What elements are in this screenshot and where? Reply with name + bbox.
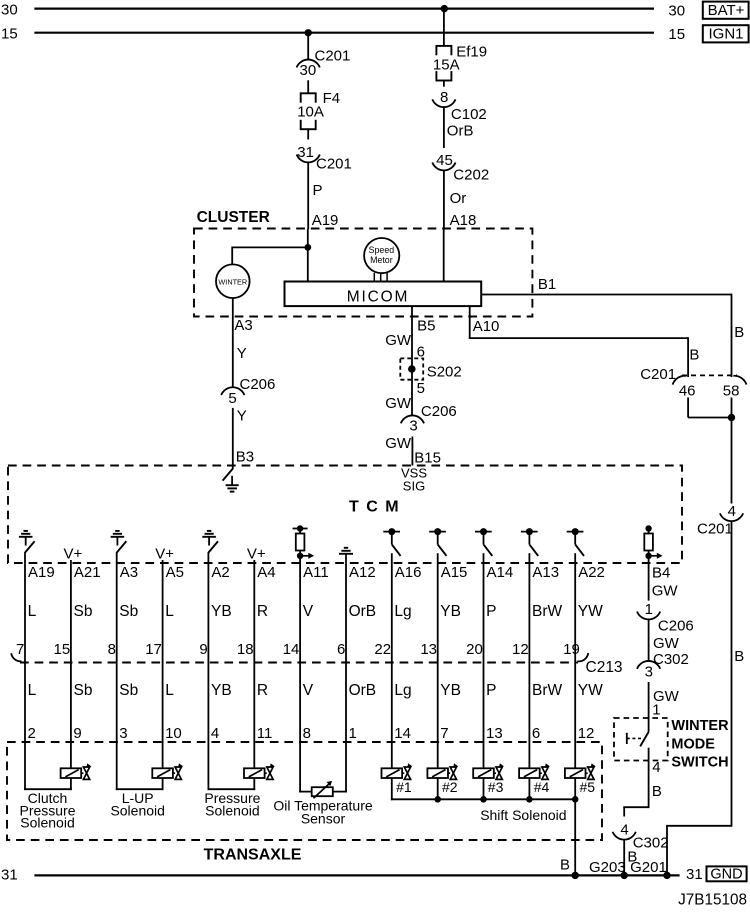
svg-text:P: P	[313, 182, 323, 199]
TCM input switch (A13)	[521, 528, 538, 563]
B3 internal ground	[226, 476, 239, 492]
wire A14 column	[483, 563, 485, 768]
svg-text:A4: A4	[257, 564, 275, 581]
BAT+ terminal box	[703, 2, 749, 19]
junction 46/58 merge	[728, 414, 735, 421]
shift solenoid #1 valve	[402, 763, 412, 779]
svg-text:B15: B15	[414, 449, 441, 466]
svg-text:A3: A3	[234, 317, 252, 334]
Oil Temperature Sensor label	[273, 798, 373, 827]
wire B1 from MICOM	[481, 294, 731, 296]
svg-text:B5: B5	[417, 318, 435, 335]
wire A11 column	[299, 563, 301, 791]
wire to WINTER lamp	[232, 246, 308, 248]
svg-text:YB: YB	[440, 682, 461, 699]
svg-text:#3: #3	[488, 779, 504, 795]
wire A13 column	[528, 563, 530, 768]
svg-text:8: 8	[440, 89, 448, 106]
svg-text:15: 15	[1, 25, 18, 42]
svg-text:A16: A16	[395, 564, 422, 581]
TCM input switch (A14)	[475, 528, 492, 563]
wire A16 column	[391, 563, 393, 768]
svg-text:9: 9	[199, 641, 207, 658]
wire shift solenoid #1 to common	[391, 778, 393, 800]
IGN1 terminal box	[703, 25, 749, 43]
wire P to cluster A19	[307, 162, 309, 229]
svg-text:V+: V+	[247, 546, 266, 563]
svg-text:Sb: Sb	[119, 682, 138, 699]
wire shift solenoid #4 to common	[528, 778, 530, 800]
svg-text:L: L	[28, 603, 37, 620]
svg-text:L: L	[165, 682, 174, 699]
TCM driver switch w/ ground (A19)	[19, 531, 35, 564]
shift solenoid #2 valve	[448, 763, 458, 779]
wire A19 into MICOM	[307, 229, 309, 282]
svg-text:R: R	[257, 603, 268, 620]
wire L-UP solenoid loop	[162, 778, 164, 790]
svg-text:C201: C201	[640, 366, 676, 383]
svg-text:#4: #4	[534, 779, 550, 795]
svg-text:8: 8	[108, 641, 116, 658]
oil temperature sensor body	[312, 787, 333, 796]
svg-text:14: 14	[394, 725, 411, 742]
connector C302 pin 4	[613, 821, 669, 851]
WINTER MODE SWITCH label	[671, 718, 729, 770]
splice S202	[400, 358, 461, 380]
svg-text:L: L	[165, 603, 174, 620]
V+ supply stub (A4)	[247, 546, 266, 564]
svg-text:YB: YB	[440, 603, 461, 620]
Clutch Pressure Solenoid label	[19, 790, 75, 831]
TCM dashed box	[8, 466, 682, 564]
wire A12 column	[345, 563, 347, 791]
svg-text:A5: A5	[166, 564, 184, 581]
svg-text:YW: YW	[578, 603, 603, 620]
svg-text:BrW: BrW	[532, 603, 563, 620]
svg-text:GND: GND	[710, 867, 742, 883]
svg-text:1: 1	[349, 725, 357, 742]
shift solenoid #4 coil	[519, 768, 540, 778]
svg-text:22: 22	[374, 641, 391, 658]
svg-text:31: 31	[1, 866, 18, 883]
svg-text:Y: Y	[237, 408, 247, 425]
svg-text:SWITCH: SWITCH	[671, 754, 728, 770]
svg-text:BAT+: BAT+	[708, 2, 745, 19]
svg-text:Lg: Lg	[394, 603, 411, 620]
svg-text:B: B	[560, 857, 570, 874]
shift solenoid #1 coil	[382, 768, 403, 778]
svg-text:TRANSAXLE: TRANSAXLE	[204, 847, 302, 864]
svg-text:C206: C206	[658, 618, 694, 635]
svg-text:Metor: Metor	[370, 255, 393, 265]
svg-text:C201: C201	[315, 48, 351, 65]
svg-text:Lg: Lg	[394, 682, 411, 699]
svg-text:V: V	[303, 682, 314, 699]
svg-text:A2: A2	[211, 564, 229, 581]
shift solenoid #5 valve	[586, 763, 596, 779]
V+ supply stub (A5)	[155, 546, 174, 564]
wire fuse F4 to C201-31	[307, 129, 309, 139]
junction ground bus (shift return)	[572, 872, 579, 879]
svg-text:OrB: OrB	[349, 682, 377, 699]
svg-text:#2: #2	[442, 779, 458, 795]
TCM input switch (A15)	[429, 528, 446, 563]
wire A22 column	[574, 563, 576, 768]
svg-text:BrW: BrW	[532, 682, 563, 699]
junction shift common	[572, 796, 579, 803]
svg-text:B4: B4	[652, 565, 670, 582]
wire WINTER to A3	[232, 298, 234, 317]
svg-text:58: 58	[723, 382, 740, 399]
wire shift solenoid #3 to common	[483, 778, 485, 800]
wire B to ground G201	[623, 839, 625, 875]
junction on bus 15	[305, 29, 312, 36]
svg-text:Solenoid: Solenoid	[205, 802, 260, 818]
connector C201 pins 46/58	[640, 366, 746, 399]
junction shift common	[434, 796, 441, 803]
TCM input switch (A16)	[383, 528, 400, 563]
svg-text:5: 5	[417, 380, 425, 397]
shift solenoid #3 coil	[473, 768, 494, 778]
wire oil temp sensor left	[299, 791, 301, 793]
svg-text:C206: C206	[240, 376, 276, 393]
svg-text:4: 4	[211, 725, 219, 742]
wire A21 column	[70, 563, 72, 768]
wire Ef19 to C102	[443, 81, 445, 87]
svg-text:P: P	[486, 603, 496, 620]
svg-text:Sb: Sb	[74, 603, 93, 620]
svg-text:Sb: Sb	[74, 682, 93, 699]
svg-text:B1: B1	[538, 276, 556, 293]
CLUSTER dashed box	[194, 229, 532, 317]
wire A10 from MICOM	[469, 306, 471, 338]
svg-text:17: 17	[145, 641, 162, 658]
GND terminal box	[707, 866, 747, 882]
connector C206 pin 5	[221, 376, 275, 407]
svg-text:OrB: OrB	[447, 123, 474, 140]
clutch pressure solenoid valve	[81, 763, 91, 779]
wire GW to TCM B15	[411, 437, 413, 466]
svg-text:MICOM: MICOM	[347, 288, 409, 305]
connector C206 pin 3	[401, 403, 457, 435]
svg-text:GW: GW	[652, 582, 679, 599]
svg-text:A10: A10	[473, 318, 500, 335]
junction shift common	[526, 796, 533, 803]
svg-text:7: 7	[440, 725, 448, 742]
junction shift common	[480, 796, 487, 803]
svg-text:A15: A15	[441, 564, 468, 581]
svg-text:C102: C102	[451, 106, 487, 123]
svg-text:11: 11	[257, 725, 273, 742]
oil temperature sensor arrow	[314, 781, 333, 798]
svg-text:19: 19	[563, 641, 580, 658]
svg-text:15: 15	[54, 641, 71, 658]
svg-text:C302: C302	[633, 834, 669, 851]
L-UP Solenoid label	[110, 790, 165, 818]
svg-text:30: 30	[1, 1, 18, 18]
svg-text:Solenoid: Solenoid	[20, 815, 75, 831]
svg-text:13: 13	[420, 641, 437, 658]
svg-text:3: 3	[409, 418, 417, 435]
svg-text:7: 7	[16, 641, 24, 658]
svg-text:B3: B3	[236, 448, 254, 465]
svg-text:14: 14	[283, 641, 300, 658]
Speed Meter gauge	[364, 238, 399, 273]
TRANSAXLE dashed box	[7, 742, 602, 840]
svg-text:Speed: Speed	[369, 245, 395, 255]
svg-text:OrB: OrB	[349, 603, 377, 620]
svg-text:L: L	[28, 682, 37, 699]
svg-text:4: 4	[652, 759, 660, 776]
svg-text:30: 30	[668, 3, 685, 20]
wire C201-30 to fuse F4	[307, 80, 309, 93]
shift solenoid #2 coil	[427, 768, 448, 778]
connector C201 pin 4	[697, 503, 743, 538]
wire bus15 to C201-30	[307, 33, 309, 60]
svg-text:13: 13	[486, 725, 503, 742]
svg-text:F4: F4	[323, 90, 341, 107]
svg-text:B: B	[652, 783, 662, 800]
wire B4 GW	[648, 563, 650, 600]
wire Y to TCM B3	[232, 408, 234, 466]
fuse F4 10A	[297, 90, 340, 130]
junction on bus 30	[441, 5, 448, 12]
svg-text:S202: S202	[427, 364, 462, 381]
wire OrB C102 to C202	[443, 107, 445, 148]
wire Y cluster to C206-5	[232, 317, 234, 387]
pressure solenoid valve	[265, 763, 275, 779]
TCM input switch (A22)	[567, 528, 584, 563]
connector C206 pin 1	[637, 601, 694, 634]
WINTER indicator lamp	[216, 264, 250, 298]
svg-text:CLUSTER: CLUSTER	[197, 209, 270, 226]
svg-text:R: R	[257, 682, 268, 699]
wire A5 column	[162, 563, 164, 768]
svg-text:C206: C206	[421, 403, 457, 420]
svg-text:Y: Y	[237, 345, 247, 362]
junction ground bus right	[663, 872, 670, 879]
wire GW to winter mode switch	[648, 682, 650, 732]
internal pull-up resistor (B4)	[644, 525, 662, 563]
connector C201 pin 30	[297, 48, 351, 80]
svg-text:G201: G201	[630, 859, 667, 876]
svg-text:B: B	[734, 648, 744, 665]
svg-text:A12: A12	[349, 564, 376, 581]
svg-text:A13: A13	[532, 564, 559, 581]
svg-text:A3: A3	[120, 564, 138, 581]
svg-text:18: 18	[237, 641, 254, 658]
svg-text:#5: #5	[580, 779, 596, 795]
L-UP solenoid coil	[152, 768, 173, 778]
svg-text:4: 4	[728, 503, 736, 520]
shift solenoid #3 valve	[494, 763, 504, 779]
svg-text:A19: A19	[312, 212, 339, 229]
svg-text:C213: C213	[586, 659, 623, 676]
svg-text:V+: V+	[64, 546, 83, 563]
internal pull-up resistor (A11)	[293, 525, 315, 563]
svg-text:30: 30	[300, 62, 317, 79]
WINTER MODE SWITCH dashed box	[614, 718, 668, 761]
svg-text:A21: A21	[74, 564, 101, 581]
connector C102 pin 8	[432, 89, 486, 123]
wire Or to cluster A18	[443, 170, 445, 229]
svg-text:31: 31	[686, 866, 703, 883]
wire A19 column	[24, 563, 26, 789]
junction node A19/WINTER	[304, 244, 311, 251]
svg-text:A19: A19	[28, 564, 55, 581]
wire shift common to ground bus	[574, 799, 576, 875]
svg-text:V+: V+	[155, 546, 174, 563]
svg-text:46: 46	[679, 382, 696, 399]
svg-text:YB: YB	[211, 603, 232, 620]
svg-text:3: 3	[645, 664, 653, 681]
wire A2 column	[207, 563, 209, 789]
wire shift solenoid #5 to common	[574, 778, 576, 800]
svg-text:4: 4	[620, 821, 628, 838]
fuse Ef19 15A	[433, 43, 487, 81]
svg-text:1: 1	[652, 702, 660, 719]
connector C202 pin 45	[432, 152, 489, 184]
wire A4 column	[253, 563, 255, 768]
svg-text:2: 2	[28, 725, 36, 742]
svg-text:10A: 10A	[297, 104, 324, 121]
svg-text:Sensor: Sensor	[301, 811, 346, 827]
bus 31 (GND)	[1, 866, 703, 883]
internal ground (A12)	[339, 548, 353, 564]
wire oil temp sensor right	[333, 791, 347, 793]
svg-text:SIG: SIG	[403, 479, 425, 494]
svg-text:GW: GW	[385, 395, 412, 412]
svg-text:C201: C201	[697, 521, 733, 538]
shift solenoid #4 valve	[540, 763, 550, 779]
L-UP solenoid valve	[173, 763, 183, 779]
shift solenoid #5 coil	[565, 768, 586, 778]
svg-text:Shift Solenoid: Shift Solenoid	[480, 807, 566, 823]
svg-text:IGN1: IGN1	[708, 26, 743, 43]
wire GW S202 to C206-3	[411, 380, 413, 416]
V+ supply stub (A21)	[64, 546, 83, 564]
wire bus30 to fuse Ef19	[443, 9, 445, 46]
MICOM box	[285, 282, 482, 307]
svg-text:GW: GW	[653, 635, 680, 652]
wire A3 column	[116, 563, 118, 789]
wire shift solenoid #2 to common	[437, 778, 439, 800]
svg-text:Sb: Sb	[119, 603, 138, 620]
svg-text:G203: G203	[589, 859, 626, 876]
svg-text:GW: GW	[385, 435, 412, 452]
TCM driver switch w/ ground (A3)	[111, 531, 127, 564]
svg-text:20: 20	[466, 641, 483, 658]
svg-text:V: V	[303, 603, 314, 620]
svg-text:15: 15	[668, 26, 685, 43]
svg-text:J7B15108: J7B15108	[678, 892, 747, 909]
svg-text:#1: #1	[396, 779, 412, 795]
svg-text:C202: C202	[453, 167, 489, 184]
svg-text:P: P	[486, 682, 496, 699]
wire B5 MICOM to S202	[411, 306, 413, 358]
svg-text:15A: 15A	[433, 57, 460, 74]
svg-text:12: 12	[578, 725, 595, 742]
winter mode switch contact	[627, 732, 649, 807]
svg-text:A18: A18	[450, 212, 477, 229]
connector C302 pin 3	[637, 651, 689, 681]
svg-text:5: 5	[228, 390, 236, 407]
wire A18 into MICOM	[443, 229, 445, 282]
svg-text:Solenoid: Solenoid	[110, 802, 165, 818]
junction ground bus G201 wire	[621, 872, 628, 879]
svg-text:WINTER: WINTER	[671, 718, 729, 734]
svg-text:6: 6	[337, 641, 345, 658]
svg-text:T C M: T C M	[349, 499, 400, 516]
clutch pressure solenoid coil	[61, 768, 82, 778]
svg-text:GW: GW	[385, 332, 412, 349]
svg-text:YB: YB	[211, 682, 232, 699]
speed meter legs	[373, 273, 375, 282]
svg-text:MODE: MODE	[671, 736, 715, 752]
svg-text:A14: A14	[487, 564, 514, 581]
shift solenoid common bus	[391, 798, 576, 800]
wire A15 column	[437, 563, 439, 768]
svg-text:8: 8	[303, 725, 311, 742]
svg-text:1: 1	[645, 601, 653, 618]
svg-text:3: 3	[119, 725, 127, 742]
wire jog to C302-4	[623, 806, 649, 808]
svg-text:12: 12	[512, 641, 529, 658]
svg-text:10: 10	[165, 725, 182, 742]
pressure solenoid coil	[244, 768, 265, 778]
connector row C213	[11, 653, 622, 676]
TCM driver switch w/ ground (A2)	[202, 531, 218, 564]
svg-text:Ef19: Ef19	[456, 43, 487, 60]
svg-text:A22: A22	[578, 564, 605, 581]
Pressure Solenoid label	[204, 790, 260, 818]
svg-text:9: 9	[73, 725, 81, 742]
svg-text:Or: Or	[450, 190, 467, 207]
svg-text:YW: YW	[578, 682, 603, 699]
svg-text:WINTER: WINTER	[218, 277, 247, 286]
wire pressure solenoid loop	[253, 778, 255, 790]
wire B down right side	[731, 521, 733, 826]
svg-text:B: B	[689, 346, 699, 363]
svg-text:C201: C201	[316, 156, 352, 173]
wire clutch solenoid loop	[70, 778, 72, 790]
svg-text:45: 45	[436, 152, 453, 169]
wire GW C206-1 to C302-3	[648, 619, 650, 661]
connector C201 pin 31	[297, 144, 352, 173]
B3 internal switch to ground	[223, 466, 233, 481]
bus 15 (IGN1)	[1, 25, 685, 43]
bus 30 (BAT+)	[1, 1, 685, 19]
svg-text:B: B	[734, 324, 744, 341]
svg-text:A11: A11	[303, 564, 329, 581]
svg-text:6: 6	[532, 725, 540, 742]
